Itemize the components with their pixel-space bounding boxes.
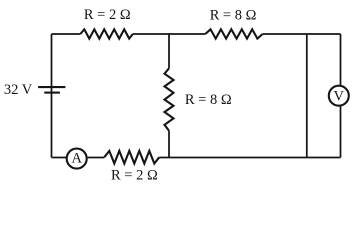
wire: right vertical below voltmeter <box>340 106 342 157</box>
wire: bottom segment from left corner to ammeter <box>52 157 67 159</box>
resistor R = 2 ohm (bottom) <box>104 151 159 164</box>
wire: top segment from left corner to R1 <box>52 33 81 35</box>
resistor R = 2 ohm (top left) <box>80 29 133 38</box>
wire: top segment between R1 and R2 <box>133 33 206 35</box>
wire: inner right vertical branch <box>306 34 308 158</box>
wire: right vertical above voltmeter <box>340 34 342 85</box>
wire: bottom segment between ammeter and R4 <box>88 157 105 159</box>
wire: middle vertical branch top stub <box>168 34 170 68</box>
resistor R = 8 ohm (middle vertical) <box>165 68 174 130</box>
svg-text:R = 8 Ω: R = 8 Ω <box>210 7 257 23</box>
ammeter A <box>67 149 87 169</box>
svg-text:V: V <box>334 89 345 105</box>
svg-text:R = 2 Ω: R = 2 Ω <box>111 168 158 184</box>
wire: left vertical branch (battery branch) <box>51 34 53 158</box>
wire: bottom segment from R4 to bottom-right corner <box>159 157 340 159</box>
wire: middle vertical branch bottom stub <box>168 131 170 158</box>
voltmeter V <box>329 86 349 106</box>
svg-text:32 V: 32 V <box>4 82 33 98</box>
svg-text:A: A <box>71 151 82 167</box>
wire: top segment from R2 to top-right corner <box>263 33 341 35</box>
resistor R = 8 ohm (top right) <box>205 29 262 38</box>
svg-text:R = 8 Ω: R = 8 Ω <box>185 92 232 108</box>
battery 32 V <box>38 87 65 93</box>
svg-text:R = 2 Ω: R = 2 Ω <box>84 7 131 23</box>
